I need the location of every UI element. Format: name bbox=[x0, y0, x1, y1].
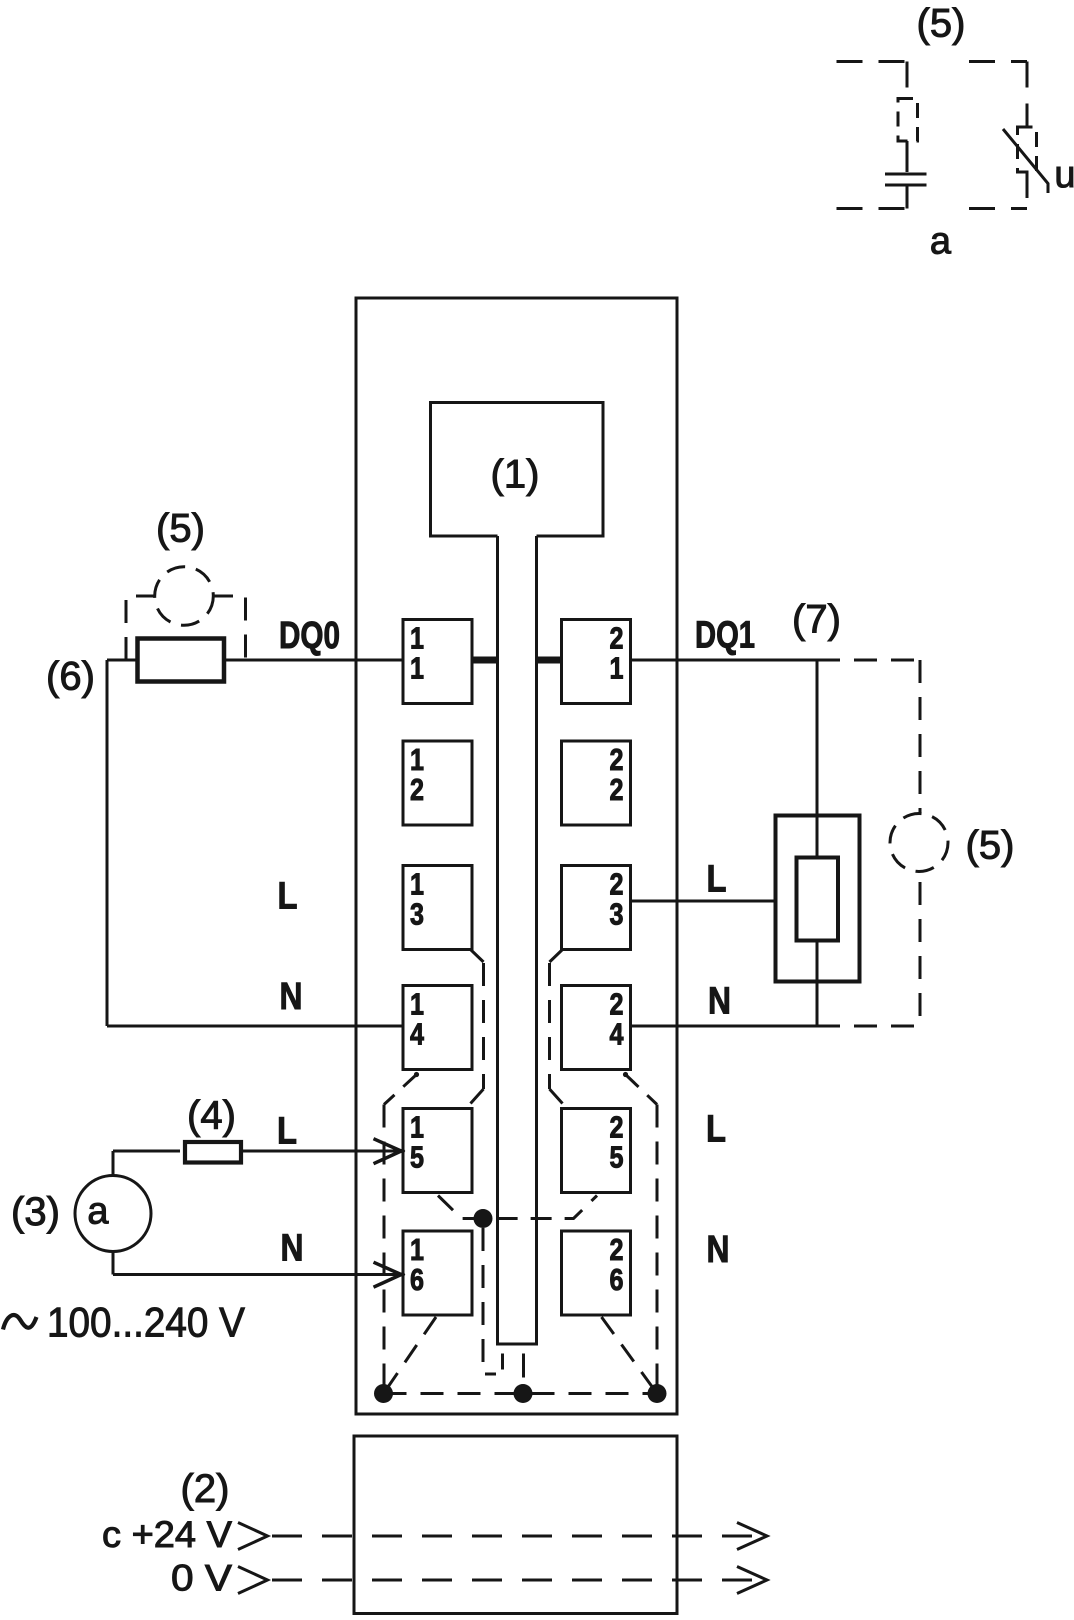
svg-text:(3): (3) bbox=[11, 1190, 60, 1234]
svg-text:N: N bbox=[707, 1229, 730, 1271]
svg-text:(2): (2) bbox=[181, 1467, 230, 1511]
svg-text:(6): (6) bbox=[46, 655, 95, 699]
svg-text:5: 5 bbox=[610, 1140, 624, 1175]
svg-text:(7): (7) bbox=[792, 598, 841, 642]
svg-text:c +24 V: c +24 V bbox=[102, 1514, 232, 1555]
svg-text:6: 6 bbox=[610, 1262, 624, 1297]
svg-text:DQ1: DQ1 bbox=[695, 615, 755, 657]
svg-text:L: L bbox=[278, 876, 298, 918]
svg-text:a: a bbox=[87, 1191, 109, 1233]
svg-text:N: N bbox=[281, 1228, 304, 1270]
svg-text:1: 1 bbox=[410, 651, 424, 686]
svg-text:3: 3 bbox=[610, 897, 624, 932]
svg-text:(5): (5) bbox=[966, 824, 1015, 868]
svg-text:N: N bbox=[708, 981, 731, 1023]
svg-text:(4): (4) bbox=[187, 1094, 236, 1138]
svg-text:L: L bbox=[706, 1109, 726, 1151]
svg-text:2: 2 bbox=[610, 772, 624, 807]
svg-text:0 V: 0 V bbox=[171, 1558, 232, 1599]
svg-text:2: 2 bbox=[410, 772, 424, 807]
svg-text:4: 4 bbox=[610, 1017, 625, 1052]
svg-text:5: 5 bbox=[410, 1140, 424, 1175]
svg-text:L: L bbox=[277, 1111, 297, 1153]
svg-text:(5): (5) bbox=[917, 2, 966, 46]
svg-text:u: u bbox=[1054, 154, 1074, 196]
svg-text:L: L bbox=[707, 859, 727, 901]
svg-text:(1): (1) bbox=[491, 453, 540, 497]
svg-text:100...240 V: 100...240 V bbox=[47, 1299, 245, 1346]
svg-text:4: 4 bbox=[410, 1017, 425, 1052]
svg-text:(5): (5) bbox=[156, 507, 205, 551]
svg-text:6: 6 bbox=[410, 1262, 424, 1297]
svg-text:DQ0: DQ0 bbox=[279, 615, 340, 657]
svg-text:a: a bbox=[930, 221, 952, 263]
svg-text:1: 1 bbox=[610, 651, 624, 686]
svg-text:3: 3 bbox=[410, 897, 424, 932]
svg-text:N: N bbox=[280, 976, 303, 1018]
